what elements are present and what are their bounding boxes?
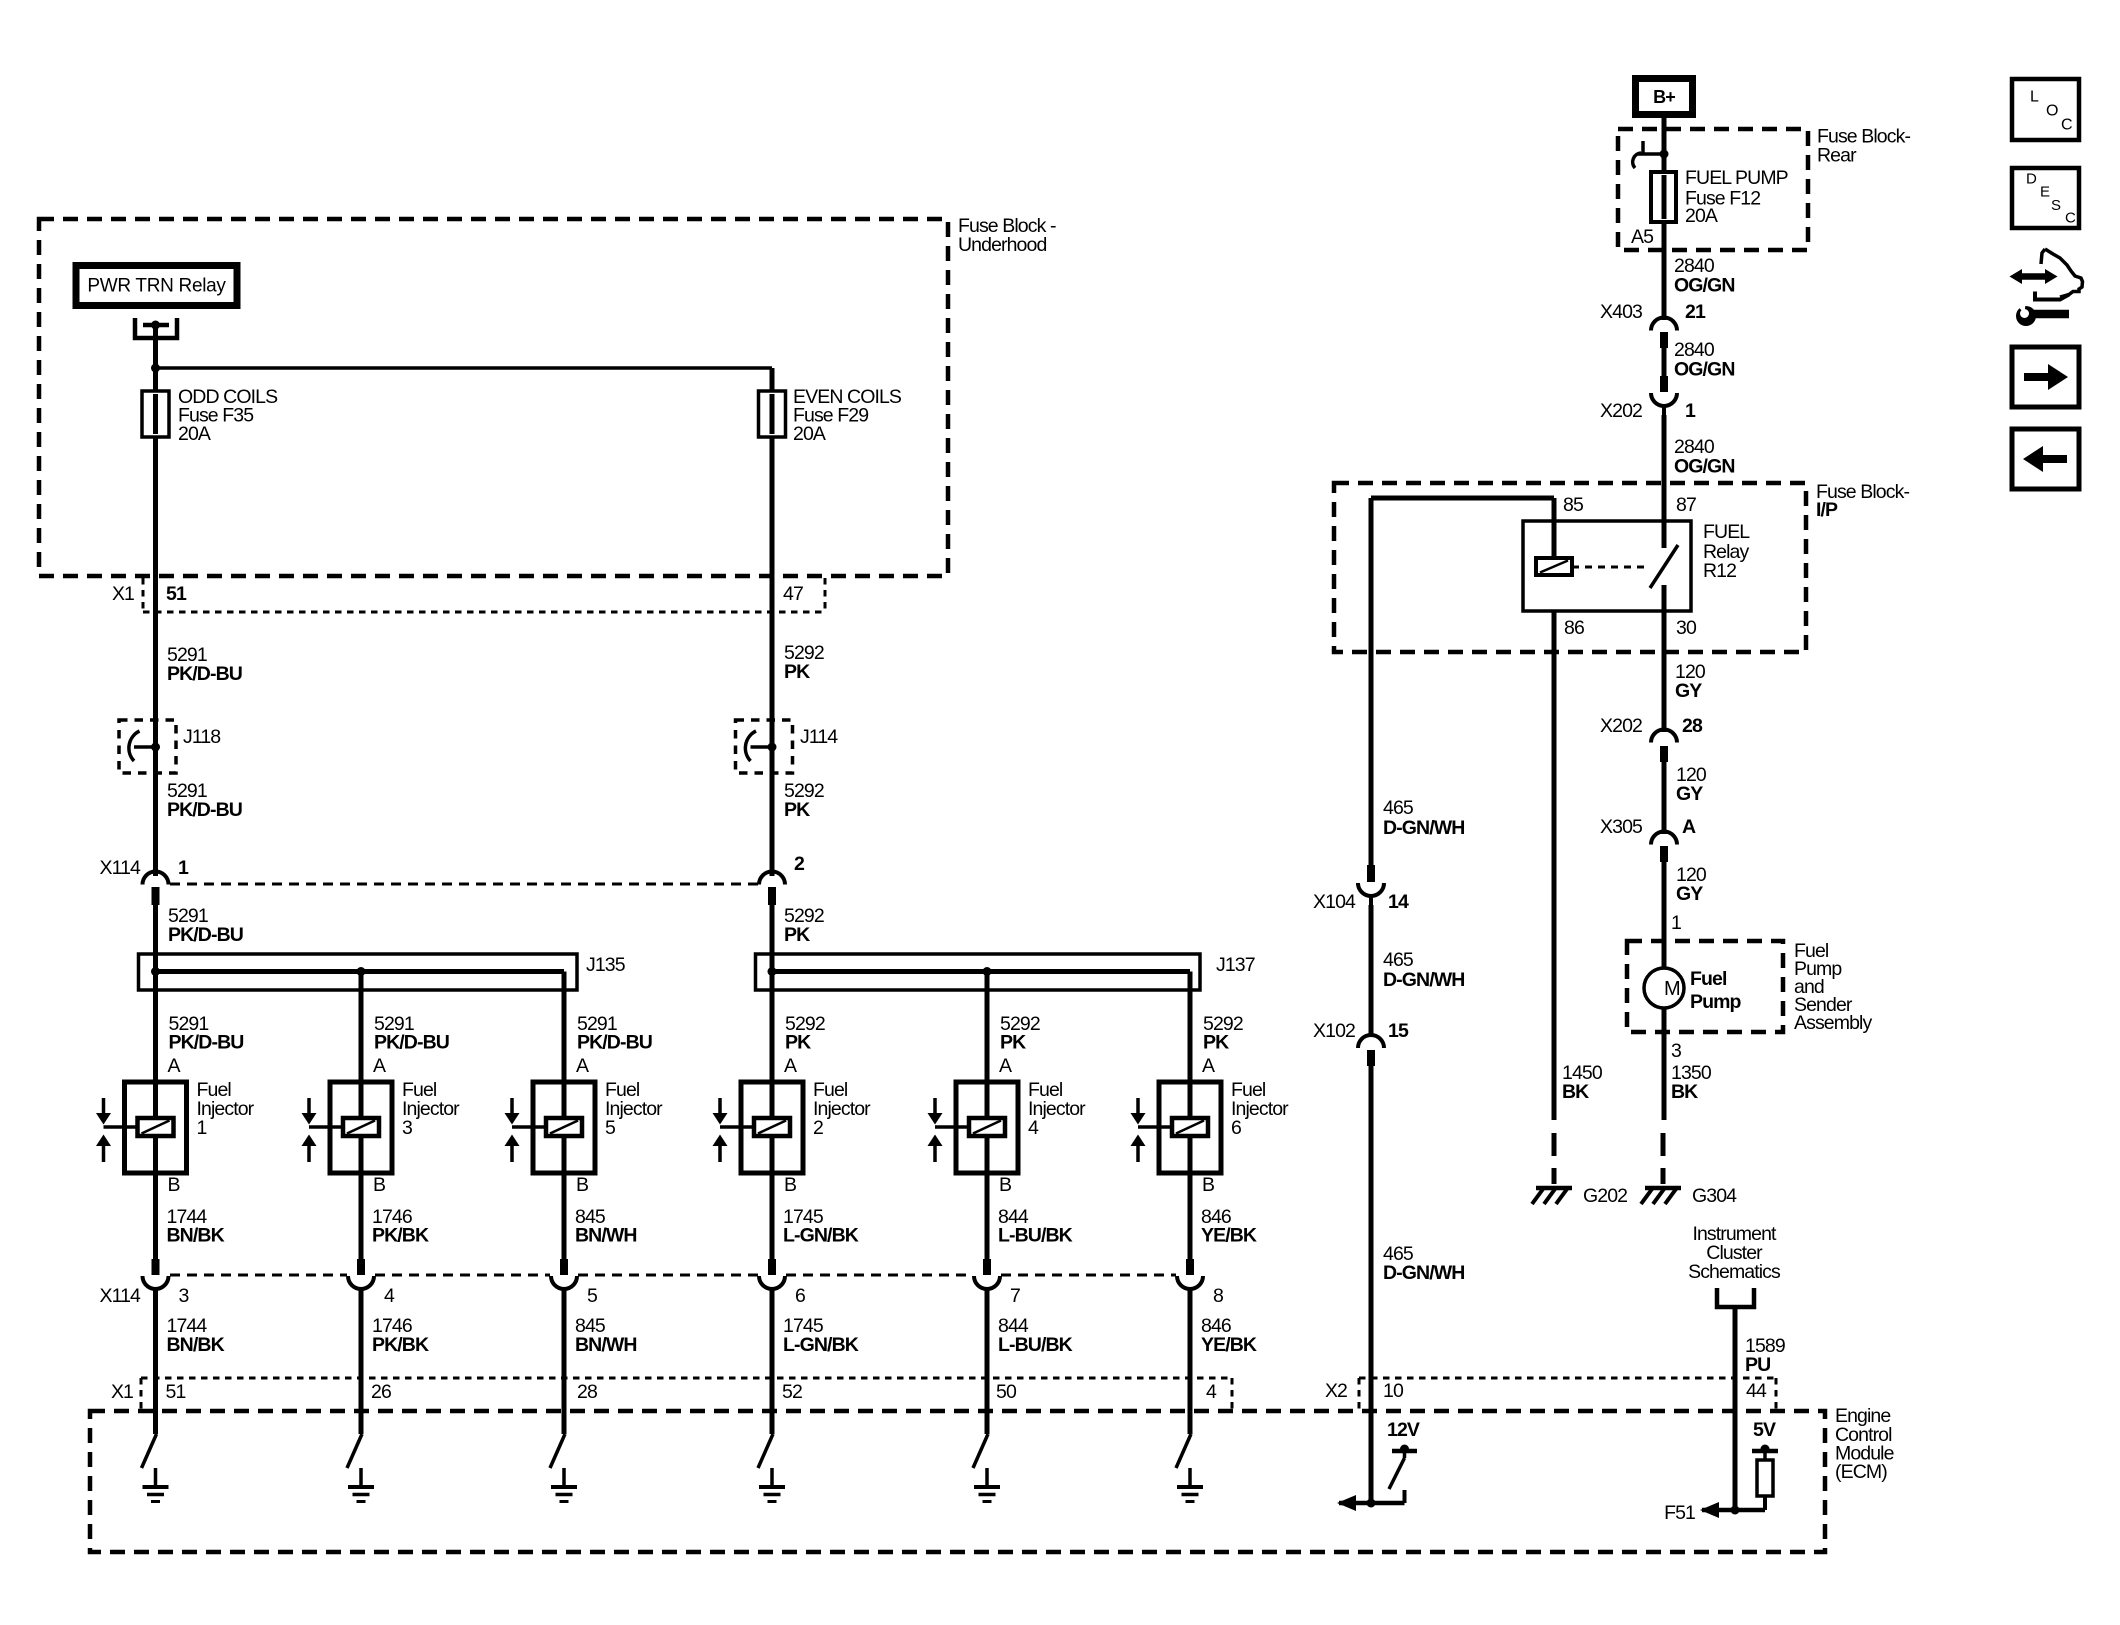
svg-text:PK/BK: PK/BK bbox=[372, 1334, 429, 1356]
svg-text:PK/D-BU: PK/D-BU bbox=[167, 799, 242, 821]
pin A label injector 5 bbox=[576, 1055, 589, 1077]
label 1589 PU bbox=[1745, 1335, 1785, 1376]
svg-text:1: 1 bbox=[1685, 400, 1696, 422]
connector X114 pin 3 bbox=[143, 1259, 169, 1289]
ground (ECM internal) 6 bbox=[1177, 1468, 1203, 1502]
pin A label injector 1 bbox=[168, 1055, 181, 1077]
pin 85 label bbox=[1563, 494, 1584, 516]
label ODD COILS Fuse F35 20A bbox=[178, 386, 278, 445]
pin 50 label (X1 ECM) bbox=[996, 1381, 1017, 1403]
svg-text:51: 51 bbox=[166, 583, 187, 605]
junction dot J137 col injector4 bbox=[983, 967, 992, 976]
connector row X114 (top) dashed line bbox=[170, 883, 758, 886]
fuel pump and sender assembly enclosure (dashed) bbox=[1627, 941, 1783, 1032]
svg-text:4: 4 bbox=[1206, 1381, 1217, 1403]
junction dot J135 col A bbox=[151, 967, 160, 976]
svg-text:28: 28 bbox=[577, 1381, 597, 1403]
svg-text:86: 86 bbox=[1564, 617, 1584, 639]
label X2 (ECM row) bbox=[1325, 1380, 1347, 1402]
wire 845 BN/WH to ECM bbox=[562, 1289, 567, 1434]
wire 5292 PK (col B upper) bbox=[770, 576, 775, 876]
label 465 D-GN/WH (2) bbox=[1383, 949, 1464, 991]
pin 51 label (X1 ECM) bbox=[166, 1381, 186, 1403]
svg-text:4: 4 bbox=[384, 1285, 395, 1307]
pin 26 label (X1 ECM) bbox=[371, 1381, 391, 1403]
wire: resistor to F51 node bbox=[1702, 1496, 1765, 1510]
label 1746 PK/BK below injector 3 bbox=[372, 1206, 429, 1247]
svg-text:G202: G202 bbox=[1583, 1185, 1627, 1207]
label J114 bbox=[800, 726, 838, 748]
svg-text:X2: X2 bbox=[1325, 1380, 1347, 1402]
wire 465 D-GN/WH (seg 3) bbox=[1369, 1066, 1374, 1503]
ECM low-side driver switch 3 bbox=[550, 1434, 565, 1468]
connector row X1 (fuse block underhood) bbox=[143, 578, 825, 612]
power node B+ bbox=[1636, 79, 1693, 115]
icon DESC box bbox=[2012, 168, 2079, 228]
relay K: PWR TRN Relay label box bbox=[76, 266, 237, 306]
wire: relay pin 85 feed (horizontal) bbox=[1371, 496, 1554, 501]
wire: relay pin 30 drop bbox=[1662, 585, 1667, 611]
label 1350 BK bbox=[1671, 1062, 1712, 1103]
svg-text:L-GN/BK: L-GN/BK bbox=[783, 1225, 859, 1247]
relay R12 coil bbox=[1536, 558, 1572, 575]
svg-text:PWR TRN Relay: PWR TRN Relay bbox=[87, 276, 226, 297]
svg-text:B: B bbox=[999, 1174, 1011, 1196]
label 5291 PK/D-BU above injector 1 bbox=[169, 1013, 244, 1054]
wire 1745 L-GN/BK to ECM bbox=[770, 1289, 775, 1434]
fuel injector 3 (solenoid) bbox=[302, 972, 393, 1260]
relay R12 body box bbox=[1523, 521, 1691, 611]
fuel injector 6 (solenoid) bbox=[1131, 972, 1222, 1260]
label G304 bbox=[1692, 1185, 1737, 1207]
ground G202 bbox=[1532, 1188, 1572, 1204]
svg-text:1: 1 bbox=[197, 1117, 207, 1139]
wire 2840 OG/GN (seg 1) bbox=[1662, 222, 1667, 320]
svg-text:J135: J135 bbox=[586, 954, 626, 976]
svg-text:1: 1 bbox=[1671, 912, 1681, 934]
svg-text:D: D bbox=[2026, 171, 2037, 188]
ECM low-side driver switch 6 bbox=[1176, 1434, 1191, 1468]
wire 2840 OG/GN (seg 3) bbox=[1662, 415, 1667, 521]
svg-text:B+: B+ bbox=[1653, 87, 1675, 107]
pin B label injector 6 bbox=[1202, 1174, 1214, 1196]
pin 15 label bbox=[1388, 1020, 1409, 1042]
pin B label injector 5 bbox=[576, 1174, 588, 1196]
wire: relay pin 85 drop bbox=[1552, 498, 1557, 558]
svg-text:C: C bbox=[2065, 210, 2076, 227]
svg-text:BK: BK bbox=[1671, 1081, 1698, 1103]
ECM low-side driver switch 1 bbox=[142, 1434, 157, 1468]
connector X114 pin 4 bbox=[348, 1259, 374, 1289]
icon next-page (right arrow) box bbox=[2012, 347, 2079, 407]
12V supply bar with node bbox=[1392, 1445, 1417, 1459]
svg-text:L: L bbox=[2030, 89, 2039, 106]
svg-text:X104: X104 bbox=[1313, 891, 1356, 913]
svg-text:Schematics: Schematics bbox=[1688, 1261, 1781, 1283]
svg-text:GY: GY bbox=[1676, 883, 1703, 905]
wire 120 GY (seg 1) bbox=[1662, 611, 1667, 732]
label 5291 PK/D-BU (below X114-1) bbox=[168, 905, 243, 946]
pin 1 label (X202) bbox=[1685, 400, 1696, 422]
pin 6 label (X114 bottom) bbox=[795, 1285, 805, 1307]
pin 8 label (X114 bottom) bbox=[1213, 1285, 1223, 1307]
wire 1350 BK (solid) bbox=[1662, 1008, 1667, 1120]
svg-text:PK: PK bbox=[1000, 1032, 1026, 1054]
label 2840 OG/GN (1) bbox=[1674, 255, 1735, 297]
svg-text:87: 87 bbox=[1676, 494, 1696, 516]
svg-text:M: M bbox=[1664, 978, 1680, 1000]
svg-text:X202: X202 bbox=[1600, 715, 1642, 737]
svg-text:D-GN/WH: D-GN/WH bbox=[1383, 817, 1464, 839]
label 5291 PK/D-BU (below J118) bbox=[167, 780, 242, 821]
relay R12 coil-contact dashed link bbox=[1572, 566, 1650, 569]
connector X114 pin 6 bbox=[759, 1259, 785, 1289]
label 5292 PK above injector 6 bbox=[1203, 1013, 1243, 1054]
label Fuel Injector 4 bbox=[1028, 1079, 1086, 1139]
terminal clip A5 symbol bbox=[1633, 141, 1669, 168]
svg-text:A: A bbox=[168, 1055, 181, 1077]
fuse block - rear enclosure (dashed) bbox=[1618, 129, 1808, 250]
pin 51 label (X1) bbox=[166, 583, 187, 605]
label Fuel Injector 6 bbox=[1231, 1079, 1289, 1139]
svg-text:5V: 5V bbox=[1753, 1419, 1776, 1441]
label Fuel Injector 3 bbox=[402, 1079, 460, 1139]
label 5292 PK (upper) bbox=[784, 642, 824, 683]
ECM low-side driver switch 2 bbox=[347, 1434, 362, 1468]
svg-text:28: 28 bbox=[1682, 715, 1703, 737]
svg-text:Assembly: Assembly bbox=[1794, 1012, 1872, 1034]
pin 28 label (X1 ECM) bbox=[577, 1381, 597, 1403]
label X104 bbox=[1313, 891, 1356, 913]
pin 52 label (X1 ECM) bbox=[782, 1381, 802, 1403]
svg-text:A: A bbox=[1682, 816, 1696, 838]
fuel injector 2 (solenoid) bbox=[713, 972, 804, 1260]
label X1 (ECM row) bbox=[111, 1381, 133, 1403]
ground (ECM internal) 1 bbox=[143, 1468, 169, 1502]
svg-text:S: S bbox=[2051, 197, 2061, 214]
svg-text:PK/BK: PK/BK bbox=[372, 1225, 429, 1247]
svg-text:20A: 20A bbox=[1685, 205, 1718, 227]
svg-text:20A: 20A bbox=[178, 423, 211, 445]
off-page connector bracket (instrument cluster) bbox=[1717, 1288, 1754, 1307]
icon vehicle outline with double arrow bbox=[2010, 249, 2083, 300]
connector X104 pin 14 bbox=[1358, 865, 1384, 905]
splice J114 bbox=[736, 720, 793, 773]
label 845 BN/WH below injector 5 bbox=[575, 1206, 637, 1247]
svg-text:Underhood: Underhood bbox=[958, 234, 1046, 256]
wire 465 D-GN/WH (seg 1) bbox=[1369, 498, 1374, 865]
connector X114 pin 8 bbox=[1177, 1259, 1203, 1289]
svg-text:G304: G304 bbox=[1692, 1185, 1737, 1207]
label 5291 PK/D-BU above injector 3 bbox=[374, 1013, 449, 1054]
svg-text:PU: PU bbox=[1745, 1354, 1770, 1376]
label 5292 PK above injector 4 bbox=[1000, 1013, 1040, 1054]
label 5291 PK/D-BU above injector 5 bbox=[577, 1013, 652, 1054]
pin B label injector 4 bbox=[999, 1174, 1011, 1196]
icon wrench bbox=[2012, 298, 2069, 326]
pin 4 label (X114 bottom) bbox=[384, 1285, 395, 1307]
label 5V bbox=[1753, 1419, 1776, 1441]
label 5292 PK above injector 2 bbox=[785, 1013, 825, 1054]
relay R12 switch blade bbox=[1650, 545, 1678, 588]
splice J118 bbox=[119, 720, 176, 773]
splice bar J137 bbox=[756, 954, 1201, 990]
svg-text:PK: PK bbox=[784, 661, 810, 683]
wire 846 YE/BK to ECM bbox=[1188, 1289, 1193, 1434]
label J135 bbox=[586, 954, 626, 976]
wire 1589 PU bbox=[1733, 1307, 1738, 1510]
connector X403 pin 21 bbox=[1651, 318, 1677, 348]
label 2840 OG/GN (2) bbox=[1674, 339, 1735, 381]
svg-text:51: 51 bbox=[166, 1381, 186, 1403]
pin A label injector 2 bbox=[784, 1055, 797, 1077]
svg-text:X114: X114 bbox=[100, 857, 142, 879]
label Fuse Block- I/P bbox=[1816, 481, 1909, 521]
label Instrument Cluster Schematics bbox=[1688, 1223, 1781, 1283]
fuel injector 4 (solenoid) bbox=[928, 972, 1019, 1260]
label X1 bbox=[112, 583, 134, 605]
junction dot (465 wire to 12V switch) bbox=[1367, 1499, 1376, 1508]
pin 30 label bbox=[1676, 617, 1697, 639]
svg-text:X102: X102 bbox=[1313, 1020, 1355, 1042]
resistor (5V pull-up) bbox=[1757, 1460, 1773, 1496]
wire 844 L-BU/BK to ECM bbox=[985, 1289, 990, 1434]
ground (ECM internal) 4 bbox=[759, 1468, 785, 1502]
wire 1744 BN/BK to ECM bbox=[153, 1289, 158, 1434]
label 1745 L-GN/BK below injector 2 bbox=[783, 1206, 859, 1247]
label 1450 BK bbox=[1562, 1062, 1603, 1103]
label X102 bbox=[1313, 1020, 1355, 1042]
label Fuel Injector 2 bbox=[813, 1079, 871, 1139]
svg-text:OG/GN: OG/GN bbox=[1674, 359, 1735, 381]
svg-text:2: 2 bbox=[813, 1117, 823, 1139]
svg-text:OG/GN: OG/GN bbox=[1674, 275, 1735, 297]
wire 1450 BK (dashed tail) bbox=[1552, 1133, 1557, 1184]
label X403 bbox=[1600, 301, 1642, 323]
wire: horizontal feed to EVEN COILS fuse bbox=[156, 366, 773, 370]
fuel injector 1 (solenoid) bbox=[96, 972, 187, 1260]
svg-text:GY: GY bbox=[1675, 680, 1702, 702]
ECM low-side driver switch 4 bbox=[758, 1434, 773, 1468]
junction node at relay output bbox=[151, 364, 160, 373]
label Fuse Block - Underhood bbox=[958, 215, 1056, 256]
svg-text:FUEL: FUEL bbox=[1703, 521, 1750, 543]
svg-text:J137: J137 bbox=[1216, 954, 1255, 976]
svg-text:L-BU/BK: L-BU/BK bbox=[998, 1225, 1073, 1247]
pin B label injector 2 bbox=[784, 1174, 796, 1196]
label Fuel Injector 1 bbox=[197, 1079, 255, 1139]
motor M: fuel pump bbox=[1644, 968, 1684, 1008]
icon LOC box bbox=[2012, 79, 2079, 140]
svg-text:2: 2 bbox=[794, 853, 805, 875]
ground G304 bbox=[1641, 1188, 1681, 1204]
icon previous-page (left arrow) box bbox=[2012, 429, 2079, 489]
pin A label injector 3 bbox=[373, 1055, 386, 1077]
svg-text:44: 44 bbox=[1746, 1380, 1767, 1402]
svg-text:F51: F51 bbox=[1664, 1502, 1695, 1524]
svg-text:L-BU/BK: L-BU/BK bbox=[998, 1334, 1073, 1356]
label G202 bbox=[1583, 1185, 1627, 1207]
label 5292 PK (below X114-2) bbox=[784, 905, 824, 946]
svg-text:PK/D-BU: PK/D-BU bbox=[167, 663, 242, 685]
5V supply bar with node bbox=[1752, 1445, 1778, 1461]
label FUEL Relay R12 bbox=[1703, 521, 1750, 582]
pin 87 label bbox=[1676, 494, 1696, 516]
pin 44 label (X2) bbox=[1746, 1380, 1767, 1402]
label Fuel Pump and Sender Assembly bbox=[1794, 940, 1872, 1034]
wire 5291 PK/D-BU (col A upper) bbox=[153, 576, 158, 876]
pin 5 label (X114 bottom) bbox=[587, 1285, 598, 1307]
svg-text:YE/BK: YE/BK bbox=[1201, 1334, 1257, 1356]
svg-text:X1: X1 bbox=[111, 1381, 133, 1403]
splice bar J135 bbox=[139, 954, 578, 990]
svg-text:J118: J118 bbox=[183, 726, 220, 748]
arrowhead (F51, off-page left) bbox=[1700, 1502, 1719, 1518]
label Fuse Block- Rear bbox=[1817, 126, 1910, 167]
connector X305 pin A bbox=[1651, 832, 1677, 862]
wire 120 GY (seg 3) bbox=[1662, 862, 1667, 968]
svg-text:L-GN/BK: L-GN/BK bbox=[783, 1334, 859, 1356]
pin 47 label (X1) bbox=[783, 583, 803, 605]
wire 2840 OG/GN (seg 2) bbox=[1662, 348, 1667, 376]
svg-text:X114: X114 bbox=[100, 1285, 142, 1307]
svg-text:B: B bbox=[373, 1174, 385, 1196]
label 844 L-BU/BK (below X114 row) bbox=[998, 1315, 1073, 1356]
svg-text:X1: X1 bbox=[112, 583, 134, 605]
pin B label injector 1 bbox=[168, 1174, 180, 1196]
svg-text:15: 15 bbox=[1388, 1020, 1409, 1042]
svg-text:OG/GN: OG/GN bbox=[1674, 456, 1735, 478]
label Engine Control Module (ECM) bbox=[1835, 1405, 1894, 1483]
svg-text:BK: BK bbox=[1562, 1081, 1589, 1103]
label J137 bbox=[1216, 954, 1255, 976]
svg-text:20A: 20A bbox=[793, 423, 826, 445]
connector X114 pin 7 bbox=[974, 1259, 1000, 1289]
svg-text:A: A bbox=[784, 1055, 797, 1077]
svg-text:B: B bbox=[1202, 1174, 1214, 1196]
relay contact bracket under PWR TRN Relay bbox=[135, 318, 177, 338]
label 846 YE/BK (below X114 row) bbox=[1201, 1315, 1257, 1356]
wire B+ to fuse block rear bbox=[1662, 118, 1667, 172]
junction dot J135 col injector3 bbox=[357, 967, 366, 976]
pin A label injector 4 bbox=[999, 1055, 1012, 1077]
svg-text:30: 30 bbox=[1676, 617, 1697, 639]
label X202 (pin 1) bbox=[1600, 400, 1642, 422]
connector X114 pin 5 bbox=[551, 1259, 577, 1289]
label 1745 L-GN/BK (below X114 row) bbox=[783, 1315, 859, 1356]
wire: relay pin 87 stub inside bbox=[1662, 521, 1667, 548]
svg-text:Rear: Rear bbox=[1817, 145, 1857, 167]
svg-text:3: 3 bbox=[179, 1285, 189, 1307]
svg-text:BN/BK: BN/BK bbox=[167, 1225, 225, 1247]
svg-text:Pump: Pump bbox=[1690, 991, 1742, 1013]
label X305 bbox=[1600, 816, 1643, 838]
svg-text:A: A bbox=[999, 1055, 1012, 1077]
wire: 12V switch output to off-page bbox=[1339, 1501, 1405, 1506]
connector row X1 (ECM) bbox=[141, 1378, 1232, 1411]
wire: relay output vertical (col A top) bbox=[153, 325, 158, 368]
fuse block - I/P enclosure (dashed) bbox=[1334, 483, 1806, 652]
connector X114 pin 1 bbox=[143, 872, 169, 905]
svg-text:50: 50 bbox=[996, 1381, 1017, 1403]
label Fuel Pump bbox=[1690, 968, 1742, 1013]
svg-text:52: 52 bbox=[782, 1381, 802, 1403]
fuse F29 EVEN COILS 20A bbox=[759, 368, 786, 576]
pump pin 3 label bbox=[1671, 1040, 1681, 1062]
fuel injector 5 (solenoid) bbox=[505, 972, 596, 1260]
label X202 (pin 28) bbox=[1600, 715, 1642, 737]
svg-text:85: 85 bbox=[1563, 494, 1584, 516]
svg-text:B: B bbox=[576, 1174, 588, 1196]
svg-text:12V: 12V bbox=[1387, 1419, 1420, 1441]
svg-text:465: 465 bbox=[1383, 949, 1414, 971]
connector X202 pin 1 bbox=[1651, 376, 1677, 415]
pin A label bbox=[1682, 816, 1696, 838]
label 120 GY (3) bbox=[1676, 864, 1707, 905]
svg-text:10: 10 bbox=[1383, 1380, 1404, 1402]
label 844 L-BU/BK below injector 4 bbox=[998, 1206, 1073, 1247]
svg-text:PK: PK bbox=[784, 799, 810, 821]
12V switch lower contact bbox=[1403, 1490, 1407, 1503]
svg-text:5: 5 bbox=[605, 1117, 616, 1139]
terminal A5 label bbox=[1631, 226, 1654, 248]
wire 1746 PK/BK to ECM bbox=[359, 1289, 364, 1434]
svg-text:47: 47 bbox=[783, 583, 803, 605]
svg-text:3: 3 bbox=[1671, 1040, 1681, 1062]
svg-text:(ECM): (ECM) bbox=[1835, 1461, 1887, 1483]
svg-text:I/P: I/P bbox=[1816, 499, 1838, 521]
pin 2 label bbox=[794, 853, 805, 875]
svg-text:PK/D-BU: PK/D-BU bbox=[374, 1032, 449, 1054]
svg-text:PK: PK bbox=[1203, 1032, 1229, 1054]
connector row X2 (ECM) bbox=[1359, 1378, 1776, 1411]
wire 120 GY (seg 2) bbox=[1662, 762, 1667, 834]
pin 28 label bbox=[1682, 715, 1703, 737]
svg-text:5: 5 bbox=[587, 1285, 598, 1307]
svg-text:J114: J114 bbox=[800, 726, 838, 748]
12V switch blade bbox=[1389, 1458, 1405, 1489]
svg-text:X305: X305 bbox=[1600, 816, 1643, 838]
svg-text:26: 26 bbox=[371, 1381, 391, 1403]
svg-text:14: 14 bbox=[1388, 891, 1409, 913]
label EVEN COILS Fuse F29 20A bbox=[793, 386, 902, 445]
svg-text:R12: R12 bbox=[1703, 560, 1736, 582]
svg-text:BN/WH: BN/WH bbox=[575, 1225, 637, 1247]
label 5291 PK/D-BU (upper) bbox=[167, 644, 242, 685]
pin 3 label (X114 bottom) bbox=[179, 1285, 189, 1307]
svg-text:8: 8 bbox=[1213, 1285, 1223, 1307]
ground (ECM internal) 2 bbox=[348, 1468, 374, 1502]
svg-text:X202: X202 bbox=[1600, 400, 1642, 422]
svg-text:BN/BK: BN/BK bbox=[167, 1334, 225, 1356]
svg-text:D-GN/WH: D-GN/WH bbox=[1383, 969, 1464, 991]
label 12V bbox=[1387, 1419, 1420, 1441]
arrowhead (12V output, off-page left) bbox=[1337, 1495, 1356, 1511]
svg-text:D-GN/WH: D-GN/WH bbox=[1383, 1262, 1464, 1284]
pin A label injector 6 bbox=[1202, 1055, 1215, 1077]
pin 7 label (X114 bottom) bbox=[1010, 1285, 1020, 1307]
pin 10 label (X2) bbox=[1383, 1380, 1404, 1402]
connector X114 pin 2 bbox=[759, 872, 785, 905]
svg-text:FUEL PUMP: FUEL PUMP bbox=[1685, 167, 1788, 189]
label 2840 OG/GN (3) bbox=[1674, 436, 1735, 478]
ground (ECM internal) 3 bbox=[551, 1468, 577, 1502]
svg-text:6: 6 bbox=[795, 1285, 805, 1307]
svg-text:1: 1 bbox=[178, 857, 189, 879]
svg-text:PK/D-BU: PK/D-BU bbox=[169, 1032, 244, 1054]
svg-text:C: C bbox=[2061, 117, 2072, 134]
label F51 bbox=[1664, 1502, 1695, 1524]
